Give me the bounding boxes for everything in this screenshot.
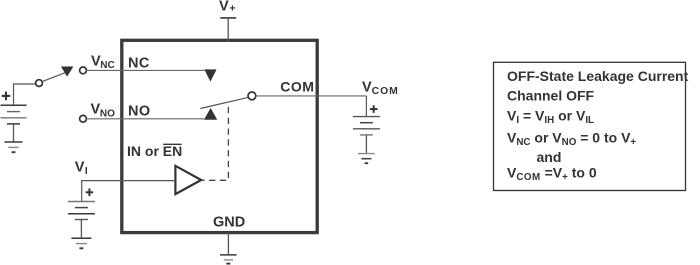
svg-text:IN or EN: IN or EN bbox=[127, 143, 182, 159]
label IN or EN bbox=[127, 143, 182, 159]
wire GND to ground bbox=[227, 233, 229, 255]
V+ supply terminal bbox=[220, 17, 236, 19]
svg-text:COM: COM bbox=[372, 86, 399, 97]
switch S1 blade bbox=[42, 73, 65, 82]
svg-text:V: V bbox=[362, 80, 372, 96]
COM node circle bbox=[248, 92, 256, 100]
svg-text:Channel OFF: Channel OFF bbox=[507, 88, 595, 104]
buffer driver U2 bbox=[175, 166, 201, 194]
svg-text:I: I bbox=[85, 166, 88, 177]
ground G1 bbox=[5, 142, 23, 152]
battery B1 bbox=[1, 105, 27, 124]
battery B3 plus label bbox=[370, 105, 378, 113]
svg-text:and: and bbox=[537, 149, 562, 165]
battery B2 bbox=[68, 202, 95, 220]
battery B3 bbox=[353, 117, 380, 135]
switch S1 pole bbox=[36, 80, 43, 87]
battery B2 plus label bbox=[86, 189, 94, 197]
label VNO bbox=[91, 102, 116, 120]
device box U1 bbox=[122, 40, 317, 232]
switch wiper to COM bbox=[200, 97, 248, 108]
wire B3 to ground bbox=[365, 135, 367, 154]
wire NC net bbox=[86, 69, 204, 71]
NO contact arrow bbox=[204, 108, 217, 120]
wire battery B1 to switch S1 bbox=[14, 84, 36, 105]
svg-text:COM: COM bbox=[280, 79, 314, 95]
ground G2 bbox=[71, 238, 91, 248]
wire V+ to box bbox=[227, 18, 229, 42]
svg-text:V: V bbox=[75, 159, 85, 175]
ground G4 bbox=[220, 255, 237, 264]
svg-text:NO: NO bbox=[128, 104, 151, 120]
wire B1 to ground bbox=[13, 124, 15, 142]
wire VI to buffer input bbox=[82, 181, 176, 202]
svg-text:NO: NO bbox=[100, 108, 115, 119]
svg-text:NC: NC bbox=[128, 56, 150, 72]
wire NO net bbox=[86, 118, 204, 120]
NC contact arrow bbox=[204, 69, 216, 81]
label VI bbox=[75, 159, 88, 177]
wire B2 to ground bbox=[80, 220, 82, 239]
svg-text:V: V bbox=[219, 0, 229, 14]
battery B1 plus label bbox=[2, 92, 11, 101]
switch S1 arrowhead bbox=[61, 67, 74, 77]
svg-text:OFF-State Leakage Current: OFF-State Leakage Current bbox=[507, 68, 689, 84]
svg-text:GND: GND bbox=[213, 215, 245, 231]
note box bbox=[494, 62, 686, 190]
wire COM net bbox=[255, 95, 366, 97]
label VNC bbox=[91, 53, 115, 71]
wire COM to battery B3 bbox=[365, 96, 367, 117]
terminal VNO bbox=[80, 115, 87, 122]
label VCOM bbox=[362, 80, 399, 98]
label V+ bbox=[219, 0, 236, 15]
terminal VNC bbox=[80, 67, 87, 74]
ground G3 bbox=[358, 154, 375, 164]
svg-text:+: + bbox=[229, 3, 235, 15]
svg-text:NC: NC bbox=[100, 60, 114, 71]
dashed control line bbox=[202, 102, 228, 180]
